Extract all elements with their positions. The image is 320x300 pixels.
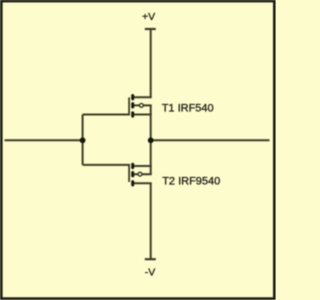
svg-text:T1 IRF540: T1 IRF540 xyxy=(162,102,214,114)
svg-text:T2 IRF9540: T2 IRF9540 xyxy=(162,175,220,187)
svg-text:-V: -V xyxy=(145,267,156,279)
svg-text:+V: +V xyxy=(142,11,155,23)
